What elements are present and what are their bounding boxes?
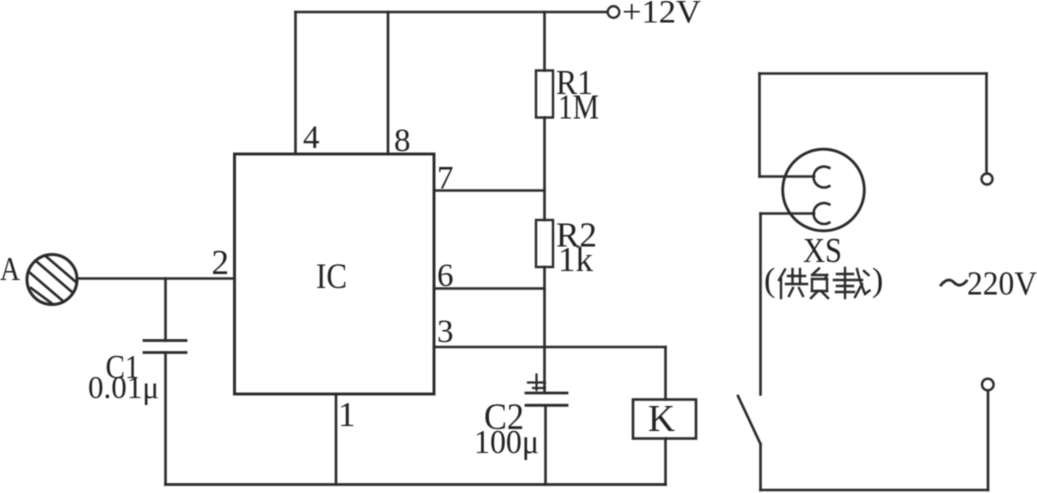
- wire switch to bottom: [759, 444, 762, 490]
- svg-text:A: A: [0, 251, 20, 288]
- wire pin6 horizontal: [434, 287, 545, 290]
- socket lower contact arc: [814, 203, 830, 224]
- wire left lower vertical to switch: [759, 214, 762, 395]
- glyph ZAI: [834, 268, 870, 298]
- svg-text:100μ: 100μ: [474, 424, 539, 461]
- svg-text:): ): [872, 262, 883, 299]
- wire right loop right upper vertical: [985, 74, 988, 174]
- capacitor C1: [144, 279, 186, 485]
- wire upper prong lead: [760, 175, 815, 178]
- wire pin3 horizontal: [434, 346, 666, 349]
- label ~220V tilde: [941, 280, 967, 285]
- svg-text:220V: 220V: [967, 266, 1037, 303]
- svg-text:1: 1: [338, 395, 356, 434]
- wire right loop left upper vertical: [758, 74, 761, 177]
- resistor R1: [536, 71, 553, 118]
- svg-text:6: 6: [437, 258, 454, 294]
- capacitor C2: [526, 393, 567, 485]
- wire top +12V rail: [296, 11, 608, 14]
- wire R1 bottom to R2 top: [543, 118, 546, 221]
- wire right loop top: [760, 72, 987, 75]
- svg-text:(: (: [764, 262, 775, 299]
- wire pin7 horizontal: [434, 189, 545, 192]
- switch blade: [738, 396, 761, 444]
- wire top rail to R1: [543, 12, 546, 71]
- wire pin4 vertical: [294, 12, 297, 154]
- svg-text:1k: 1k: [558, 240, 594, 279]
- wire right loop bottom: [761, 489, 989, 492]
- wire lower prong lead: [761, 212, 815, 215]
- svg-text:3: 3: [437, 314, 454, 350]
- svg-text:4: 4: [303, 120, 320, 156]
- svg-text:XS: XS: [803, 231, 842, 270]
- wire pin2 horizontal: [77, 277, 235, 280]
- terminal upper circle: [982, 174, 993, 185]
- svg-text:+12V: +12V: [622, 0, 701, 31]
- relay K box: [633, 400, 696, 439]
- resistor R2: [536, 220, 553, 267]
- svg-text:7: 7: [437, 161, 454, 197]
- polarity plus mark: [528, 375, 545, 391]
- svg-text:IC: IC: [316, 256, 347, 296]
- wire relay to bottom rail: [664, 439, 667, 485]
- glyph FU: [811, 269, 828, 299]
- terminal +12V circle: [608, 6, 620, 18]
- wire right loop right lower vertical: [987, 391, 990, 491]
- wire pin3 to relay: [664, 347, 667, 400]
- svg-text:0.01μ: 0.01μ: [88, 369, 159, 405]
- svg-text:1M: 1M: [558, 88, 599, 127]
- node A electrode circle: [27, 255, 77, 305]
- socket upper contact arc: [814, 167, 830, 188]
- socket XS circle: [783, 149, 865, 231]
- terminal lower circle: [982, 379, 994, 391]
- svg-text:2: 2: [212, 243, 230, 282]
- op-amp U1 IC box: [235, 154, 435, 394]
- wire pin8 vertical: [387, 12, 390, 154]
- glyph GONG: [779, 269, 807, 298]
- wire R2 bottom to C2 top: [543, 267, 546, 393]
- wire pin1 vertical: [335, 394, 338, 485]
- svg-text:K: K: [648, 398, 676, 440]
- wire bottom rail: [166, 483, 666, 486]
